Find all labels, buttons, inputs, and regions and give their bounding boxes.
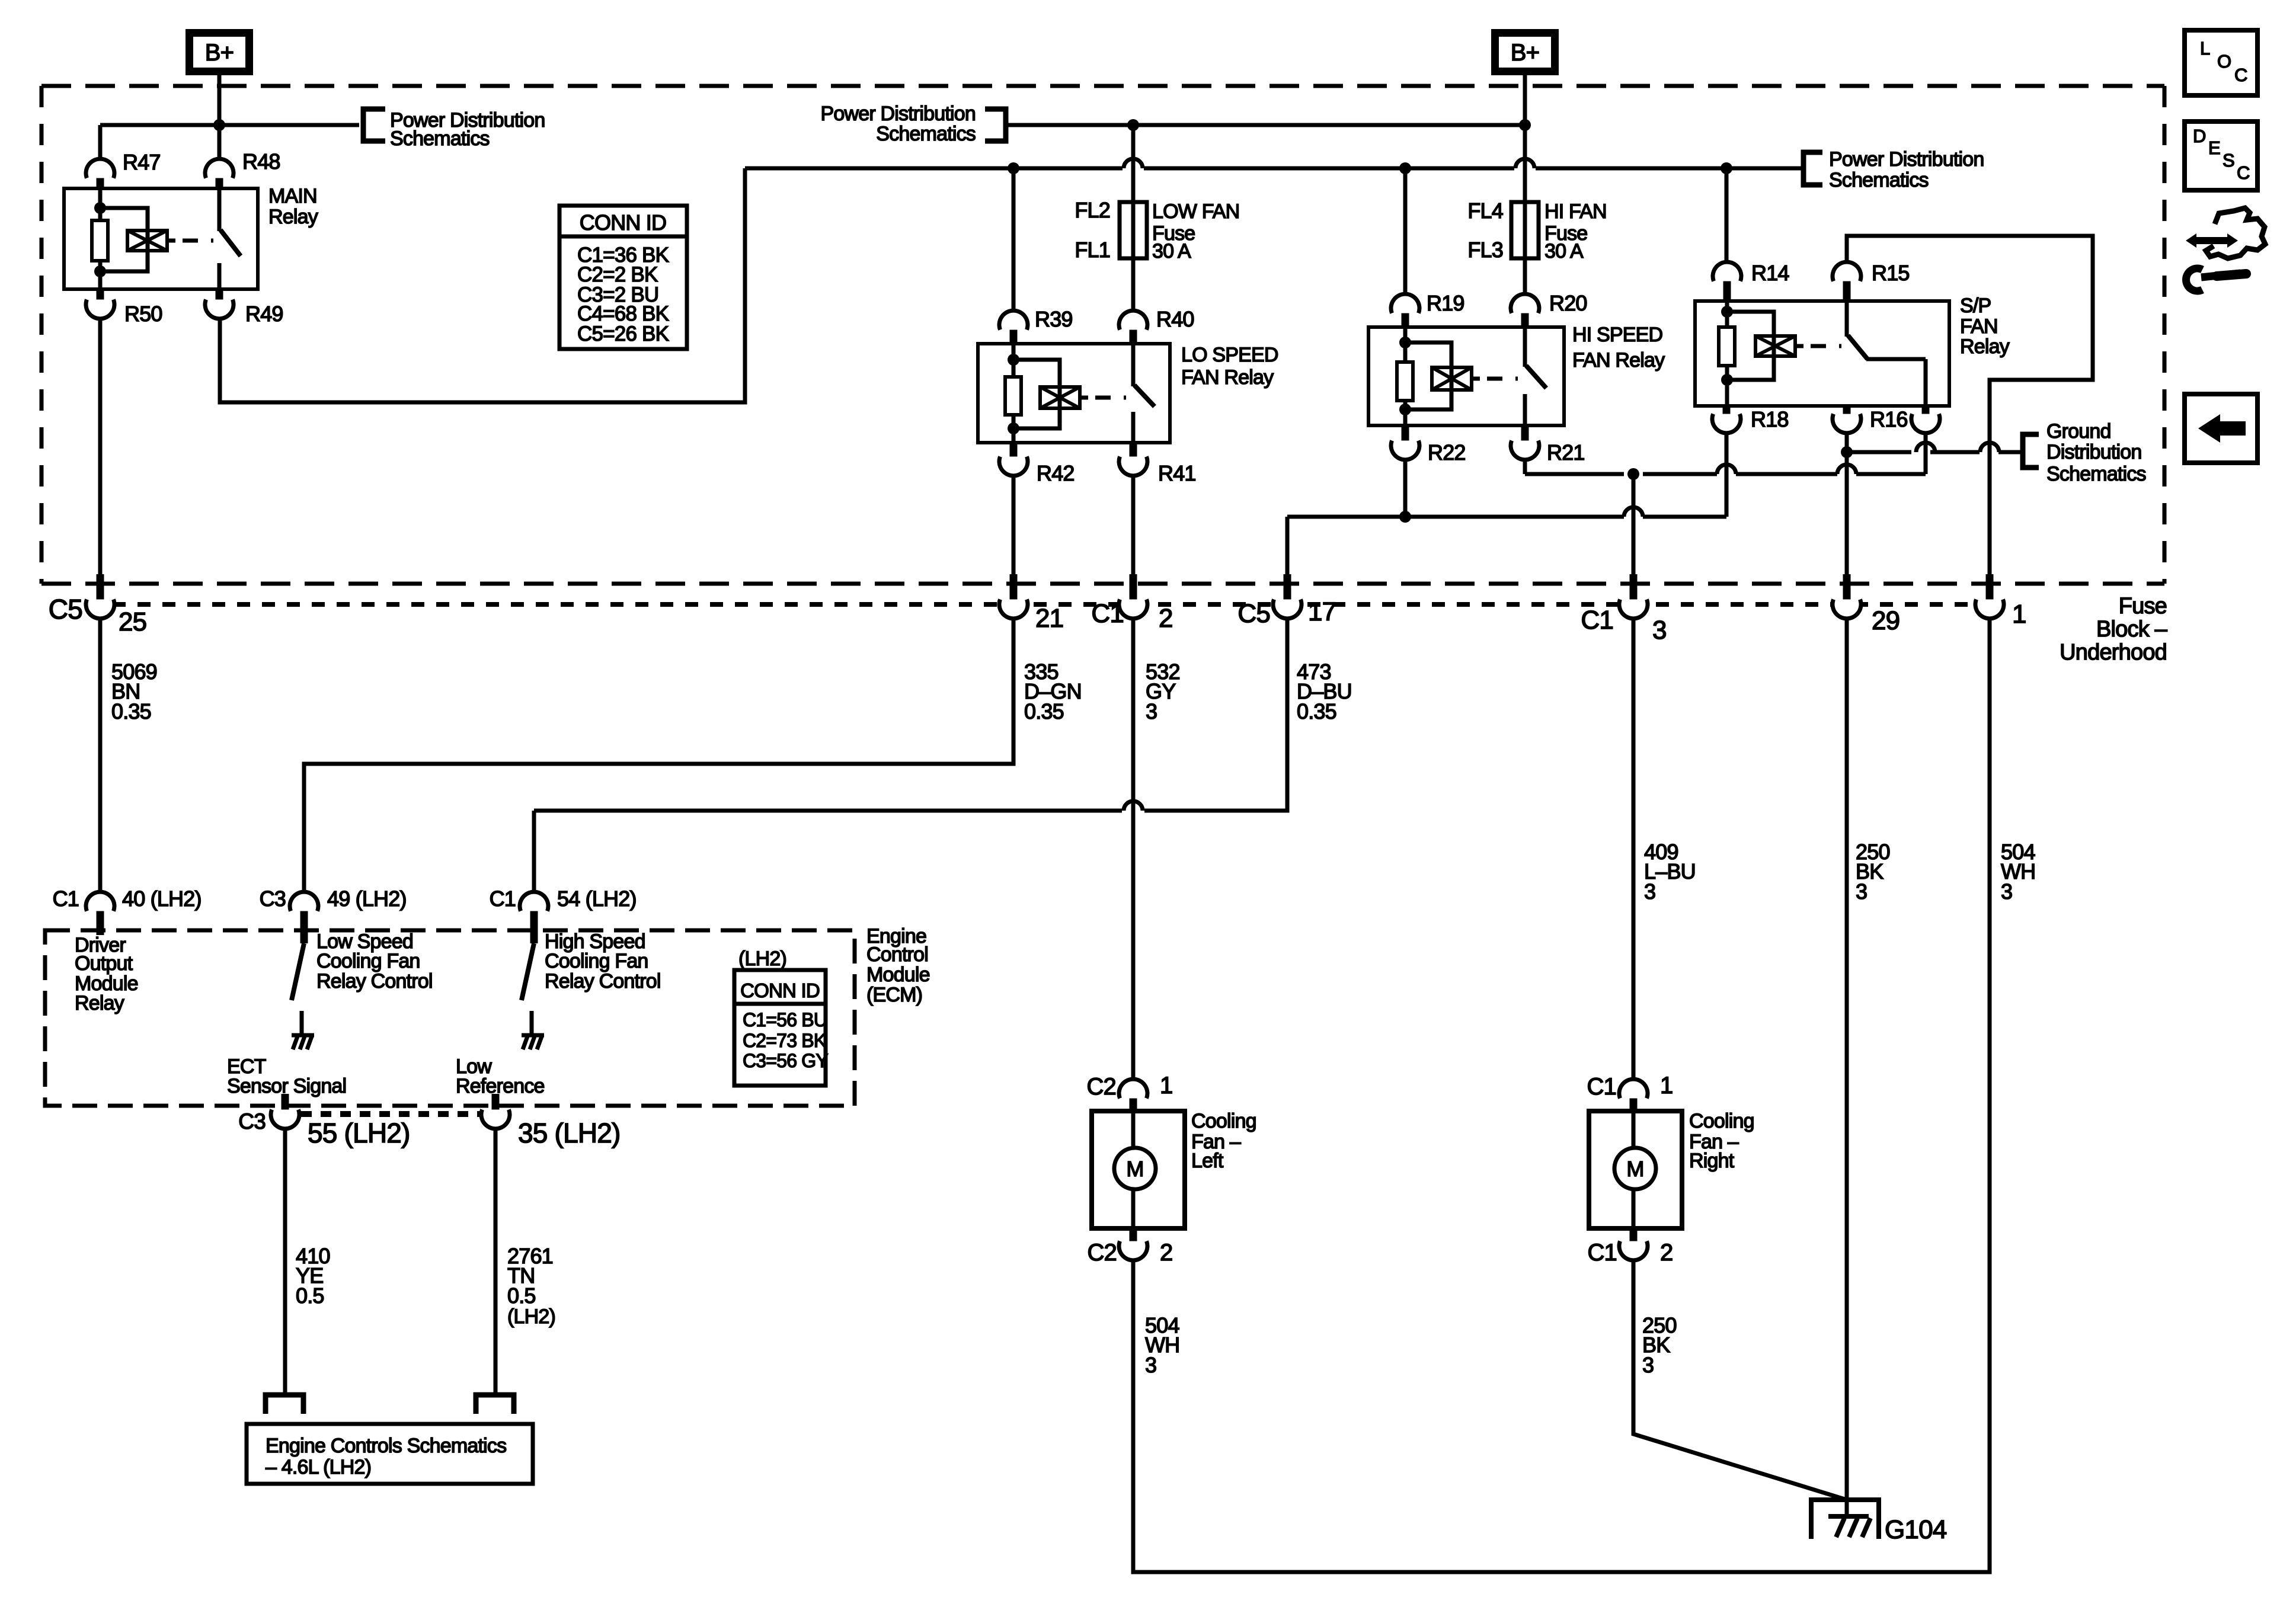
relay LO SPEED switch bbox=[1133, 344, 1155, 443]
svg-text:C3: C3 bbox=[238, 1109, 266, 1134]
label Fuse Block - Underhood bbox=[2060, 594, 2168, 665]
label R21 bbox=[1547, 440, 1585, 465]
label 35 (LH2) bbox=[518, 1118, 621, 1148]
node junction dot R22 bbox=[1399, 511, 1411, 523]
relay S/P switch bbox=[1847, 301, 1926, 406]
svg-text:C: C bbox=[2234, 65, 2247, 85]
icon back arrow box bbox=[2185, 394, 2257, 463]
label C2 1 left fan bbox=[1086, 1073, 1172, 1100]
label ECT Sensor Signal bbox=[227, 1055, 346, 1097]
label C3 55 (LH2) bbox=[238, 1109, 410, 1148]
hop bus over LOW FAN fuse wire bbox=[1124, 159, 1143, 168]
pin fuse block 21 stub+arc bbox=[999, 574, 1028, 619]
label FL3 bbox=[1467, 238, 1503, 262]
relay MAIN switch bbox=[219, 188, 241, 289]
ECM lower connector dotted line bbox=[301, 1111, 481, 1117]
label G104 bbox=[1885, 1515, 1947, 1544]
pin right fan C1 2 stub+arc bbox=[1619, 1228, 1648, 1260]
svg-text:S/P: S/P bbox=[1960, 295, 1991, 317]
hop R22 net over pin3 wire bbox=[1624, 507, 1643, 517]
label LOW FAN Fuse 30 A bbox=[1152, 200, 1239, 263]
pin fuse block 2 stub+arc bbox=[1119, 574, 1147, 619]
ground G104 symbol bbox=[1811, 1500, 1879, 1539]
svg-text:Schematics: Schematics bbox=[1829, 169, 1929, 191]
svg-text:R15: R15 bbox=[1872, 261, 1910, 285]
pin R19 stub+arc bbox=[1391, 294, 1419, 327]
pin R42 stub+arc bbox=[999, 443, 1028, 476]
svg-text:C1: C1 bbox=[1581, 606, 1613, 635]
relay MAIN coil branch bbox=[92, 188, 213, 289]
node junction dot R16 bbox=[1841, 446, 1853, 458]
label HI SPEED FAN Relay bbox=[1572, 324, 1665, 372]
label Cooling Fan Right bbox=[1689, 1110, 1754, 1172]
label 409 L-BU 3 bbox=[1644, 840, 1696, 904]
fuse block underhood dashed boundary box bbox=[41, 86, 2164, 584]
label R48 bbox=[242, 149, 280, 174]
svg-text:1: 1 bbox=[1660, 1073, 1673, 1099]
pin R14 stub+arc bbox=[1713, 262, 1741, 301]
off-page bracket Power Distribution Schematics middle bbox=[985, 109, 1006, 141]
label R42 bbox=[1037, 461, 1075, 485]
label R18 bbox=[1751, 407, 1789, 431]
power symbol B+ right terminal box bbox=[1495, 33, 1555, 72]
wire pin3 drop bbox=[1632, 474, 1636, 590]
svg-text:Power Distribution: Power Distribution bbox=[1829, 148, 1984, 171]
ground ECM low speed driver bbox=[292, 1035, 314, 1049]
svg-text:E: E bbox=[2208, 137, 2220, 158]
svg-text:55 (LH2): 55 (LH2) bbox=[308, 1118, 410, 1148]
relay S/P coil branch bbox=[1719, 301, 1841, 406]
svg-text:17: 17 bbox=[1308, 597, 1336, 626]
pin fuse block 3 stub+arc bbox=[1619, 574, 1648, 619]
svg-text:R22: R22 bbox=[1428, 440, 1466, 465]
svg-text:3: 3 bbox=[1642, 1353, 1654, 1377]
power symbol B+ left terminal box bbox=[190, 33, 250, 72]
svg-text:HI SPEED: HI SPEED bbox=[1572, 324, 1662, 346]
label R47 bbox=[123, 150, 161, 174]
label pin C1 2 bbox=[1091, 599, 1172, 633]
svg-text:3: 3 bbox=[1146, 699, 1157, 724]
label FL1 bbox=[1075, 238, 1110, 262]
node junction dot fuse FL2 tap bbox=[1127, 119, 1139, 131]
wire B+ right drop bbox=[1523, 75, 1527, 125]
svg-text:54 (LH2): 54 (LH2) bbox=[557, 886, 637, 911]
label 5069 BN 0.35 bbox=[111, 660, 157, 724]
fuse FL2/FL1 LOW FAN 30A bbox=[1120, 202, 1147, 258]
svg-text:R21: R21 bbox=[1547, 440, 1585, 465]
label R16 bbox=[1870, 407, 1908, 431]
motor Cooling Fan Right bbox=[1589, 1111, 1682, 1228]
svg-text:C1=56 BU: C1=56 BU bbox=[743, 1009, 827, 1030]
svg-text:FAN Relay: FAN Relay bbox=[1572, 349, 1665, 372]
svg-text:Relay: Relay bbox=[1960, 335, 2010, 358]
label C1 54 (LH2) bbox=[490, 886, 637, 911]
label C1 40 (LH2) bbox=[53, 886, 202, 911]
svg-text:G104: G104 bbox=[1885, 1515, 1947, 1544]
svg-text:Fuse: Fuse bbox=[2119, 594, 2167, 619]
svg-text:M: M bbox=[1126, 1157, 1143, 1181]
wire drop to R48 bbox=[218, 125, 222, 159]
svg-text:Cooling Fan: Cooling Fan bbox=[316, 950, 420, 972]
relay LO SPEED box bbox=[978, 344, 1170, 443]
svg-text:C5: C5 bbox=[1237, 599, 1270, 628]
pin right fan C1 1 stub+arc bbox=[1619, 1079, 1648, 1109]
svg-text:2: 2 bbox=[1660, 1240, 1673, 1266]
label C3 49 (LH2) bbox=[260, 886, 407, 911]
svg-text:C2=73 BK: C2=73 BK bbox=[743, 1030, 826, 1051]
wire R42 to pin 21 bbox=[1012, 477, 1016, 590]
svg-text:R41: R41 bbox=[1158, 461, 1196, 485]
wire 250 BK pin29 to ground bbox=[1845, 619, 1849, 1500]
motor Cooling Fan Left bbox=[1092, 1111, 1185, 1228]
svg-text:3: 3 bbox=[1856, 879, 1867, 904]
svg-text:R39: R39 bbox=[1035, 307, 1073, 331]
svg-text:B+: B+ bbox=[205, 40, 234, 66]
pin ECM C1 54 stub+arc bbox=[520, 892, 548, 943]
wire 410 YE to engine controls bbox=[283, 1128, 287, 1395]
pin R15 stub+arc bbox=[1833, 262, 1861, 301]
wire B+ left drop to junction bbox=[218, 75, 222, 125]
svg-text:Output: Output bbox=[75, 952, 133, 975]
svg-text:(ECM): (ECM) bbox=[866, 984, 922, 1006]
pin ECM C3 49 stub+arc bbox=[290, 892, 318, 943]
wire drop to R47 bbox=[98, 125, 103, 159]
label C1 2 right fan bbox=[1587, 1240, 1673, 1266]
pin R49 stub+arc bbox=[205, 289, 234, 319]
svg-text:D: D bbox=[2193, 126, 2206, 146]
wire R16 to ground bracket net bbox=[1847, 433, 2023, 452]
label FL4 bbox=[1467, 199, 1503, 223]
label Power Distribution Schematics right bbox=[1829, 148, 1984, 191]
svg-text:C3=56 GY: C3=56 GY bbox=[743, 1050, 828, 1071]
label Driver Output Module Relay bbox=[75, 934, 138, 1014]
wire LOW FAN fuse to R40 bbox=[1131, 258, 1136, 311]
svg-text:M: M bbox=[1626, 1157, 1643, 1181]
relay LO SPEED coil branch bbox=[1005, 344, 1126, 443]
hop bus over B+ right wire bbox=[1515, 159, 1534, 168]
label 410 YE 0.5 bbox=[296, 1244, 330, 1308]
svg-text:Underhood: Underhood bbox=[2060, 640, 2167, 665]
svg-text:Relay Control: Relay Control bbox=[545, 970, 661, 993]
label 504 WH 3 upper bbox=[2001, 840, 2035, 904]
icon LOC box bbox=[2185, 30, 2257, 95]
off-page bracket Ground Distribution Schematics bbox=[2023, 434, 2039, 468]
label R41 bbox=[1158, 461, 1196, 485]
svg-text:3: 3 bbox=[1652, 616, 1667, 645]
svg-text:Ground: Ground bbox=[2046, 420, 2111, 443]
wire R50 to pin 25 bbox=[98, 320, 103, 590]
label Low Reference bbox=[456, 1055, 545, 1097]
label 2761 TN 0.5 (LH2) bbox=[507, 1244, 555, 1328]
svg-text:30 A: 30 A bbox=[1544, 240, 1584, 263]
label 250 BK 3 lower bbox=[1642, 1313, 1677, 1377]
label pin C5 17 bbox=[1237, 597, 1336, 628]
icon DESC box bbox=[2185, 121, 2257, 190]
svg-text:C3: C3 bbox=[260, 886, 286, 911]
label 504 WH 3 lower bbox=[1145, 1313, 1179, 1377]
svg-text:C1: C1 bbox=[1587, 1240, 1617, 1266]
pin S/P switch output stub+arc bbox=[1911, 406, 1940, 433]
wire 504 WH pin1 to left fan return bbox=[1133, 619, 1990, 1572]
label R14 bbox=[1751, 261, 1789, 285]
svg-text:(LH2): (LH2) bbox=[507, 1305, 555, 1328]
wire R21 to S/P output pin net bbox=[1525, 433, 1926, 474]
hop 473 wire over 532 wire bbox=[1124, 801, 1143, 811]
svg-text:O: O bbox=[2217, 51, 2231, 72]
svg-text:Schematics: Schematics bbox=[876, 123, 976, 145]
label Engine Control Module (ECM) bbox=[866, 925, 930, 1006]
svg-text:3: 3 bbox=[1145, 1353, 1156, 1377]
label Ground Distribution Schematics bbox=[2046, 420, 2146, 485]
pin fuse block 17 stub+arc bbox=[1273, 574, 1302, 619]
label pin C1 3 bbox=[1581, 606, 1666, 645]
label R19 bbox=[1427, 291, 1464, 315]
ground ECM high speed driver bbox=[522, 1035, 544, 1049]
svg-text:R19: R19 bbox=[1427, 291, 1464, 315]
svg-text:0.35: 0.35 bbox=[111, 699, 151, 724]
pin ECM C1 40 stub+arc bbox=[86, 892, 114, 935]
node bus junction R14 bbox=[1721, 162, 1732, 174]
label 250 BK 3 upper bbox=[1856, 840, 1890, 904]
label R22 bbox=[1428, 440, 1466, 465]
svg-text:C5=26 BK: C5=26 BK bbox=[577, 322, 669, 345]
wire main power bus bbox=[745, 167, 1803, 171]
label Power Distribution Schematics left bbox=[390, 109, 545, 150]
pin R40 stub+arc bbox=[1119, 311, 1147, 344]
wire 409 L-BU pin3 to right fan bbox=[1632, 619, 1636, 1080]
wire LOW FAN fuse drop from tap bbox=[1131, 125, 1136, 202]
pin R48 stub+arc bbox=[205, 159, 234, 188]
label LO SPEED FAN Relay bbox=[1181, 344, 1278, 389]
svg-text:C1: C1 bbox=[53, 886, 79, 911]
pin ECM 35 stub+arc bbox=[481, 1094, 510, 1129]
svg-text:Power Distribution: Power Distribution bbox=[821, 103, 976, 125]
svg-text:29: 29 bbox=[1872, 606, 1900, 635]
svg-text:R20: R20 bbox=[1549, 291, 1587, 315]
wire 5069 BN pin25 to ECM C1-40 bbox=[98, 619, 103, 892]
svg-text:Relay: Relay bbox=[268, 206, 318, 228]
svg-text:R42: R42 bbox=[1037, 461, 1075, 485]
receptacle left engine controls bbox=[266, 1395, 303, 1414]
label FL2 bbox=[1075, 198, 1110, 222]
label pin 1 bbox=[2012, 600, 2026, 629]
svg-text:LOW FAN: LOW FAN bbox=[1152, 200, 1239, 223]
svg-text:S: S bbox=[2223, 150, 2234, 171]
svg-text:C1: C1 bbox=[1091, 599, 1124, 628]
svg-text:HI FAN: HI FAN bbox=[1544, 200, 1607, 223]
svg-text:3: 3 bbox=[2001, 879, 2012, 904]
wire 532 GY pin2 to left fan bbox=[1131, 619, 1136, 1080]
svg-text:1: 1 bbox=[1160, 1073, 1172, 1099]
svg-text:C: C bbox=[2237, 162, 2250, 183]
svg-text:40 (LH2): 40 (LH2) bbox=[122, 886, 202, 911]
pin R41 stub+arc bbox=[1119, 443, 1147, 476]
svg-text:C5: C5 bbox=[49, 594, 82, 625]
wire middle feed line bracket to B+ right bbox=[1006, 123, 1525, 127]
svg-text:Block –: Block – bbox=[2096, 617, 2168, 642]
svg-text:R40: R40 bbox=[1156, 307, 1194, 331]
wire HI FAN fuse to R20 bbox=[1523, 258, 1527, 295]
wire 335 D-GN pin21 to ECM C3-49 bbox=[304, 619, 1013, 892]
hop ground net over S/P output wire bbox=[1916, 443, 1935, 452]
svg-text:Distribution: Distribution bbox=[2046, 441, 2141, 463]
svg-text:21: 21 bbox=[1035, 604, 1063, 633]
svg-text:0.5: 0.5 bbox=[296, 1283, 324, 1308]
svg-text:Relay: Relay bbox=[75, 992, 124, 1014]
svg-text:0.35: 0.35 bbox=[1297, 699, 1336, 724]
label 335 D-GN 0.35 bbox=[1024, 660, 1082, 724]
svg-text:R49: R49 bbox=[245, 302, 283, 326]
svg-text:R14: R14 bbox=[1751, 261, 1789, 285]
label R50 bbox=[124, 302, 162, 326]
svg-text:0.5: 0.5 bbox=[507, 1283, 536, 1308]
wire bus drop to R19 bbox=[1403, 168, 1408, 295]
hop R21 net over R18 wire bbox=[1717, 465, 1736, 474]
wire bus drop to R39 bbox=[1012, 168, 1016, 311]
svg-text:MAIN: MAIN bbox=[268, 185, 317, 207]
pin fuse block 1 stub+arc bbox=[1975, 574, 2004, 619]
svg-text:25: 25 bbox=[119, 607, 146, 636]
wire B+ right down to HI FAN fuse bbox=[1523, 125, 1527, 202]
svg-text:FL4: FL4 bbox=[1467, 199, 1503, 223]
svg-text:(LH2): (LH2) bbox=[738, 948, 786, 970]
label R49 bbox=[245, 302, 283, 326]
label R15 bbox=[1872, 261, 1910, 285]
label pin 21 bbox=[1035, 604, 1063, 633]
svg-text:R48: R48 bbox=[242, 149, 280, 174]
svg-text:Schematics: Schematics bbox=[390, 127, 490, 150]
svg-text:Left: Left bbox=[1191, 1150, 1224, 1172]
label MAIN Relay bbox=[268, 185, 318, 228]
svg-text:CONN ID: CONN ID bbox=[740, 980, 820, 1001]
svg-text:3: 3 bbox=[1644, 879, 1655, 904]
off-page bracket Power Distribution Schematics left bbox=[363, 109, 385, 141]
svg-text:1: 1 bbox=[2012, 600, 2026, 629]
pin R22 stub+arc bbox=[1391, 425, 1419, 460]
node junction dot pin3 tap bbox=[1627, 468, 1639, 480]
pin R39 stub+arc bbox=[999, 311, 1028, 344]
fuse FL4/FL3 HI FAN 30A bbox=[1511, 202, 1539, 258]
relay HI SPEED switch bbox=[1525, 327, 1546, 425]
wire bus drop to R14 bbox=[1725, 168, 1729, 263]
switch ECM low speed driver bbox=[292, 943, 304, 1033]
label Low Speed Cooling Fan Relay Control bbox=[316, 930, 433, 993]
relay HI SPEED coil branch bbox=[1397, 327, 1518, 425]
box Engine Controls Schematics bbox=[247, 1424, 533, 1484]
svg-text:FL3: FL3 bbox=[1467, 238, 1503, 262]
svg-text:35 (LH2): 35 (LH2) bbox=[518, 1118, 621, 1148]
label Cooling Fan Left bbox=[1191, 1110, 1256, 1172]
label (LH2) conn id 2 bbox=[738, 948, 786, 970]
svg-text:Relay Control: Relay Control bbox=[316, 970, 433, 993]
label R39 bbox=[1035, 307, 1073, 331]
svg-text:30 A: 30 A bbox=[1152, 240, 1191, 263]
relay MAIN box bbox=[64, 188, 258, 289]
svg-text:C1: C1 bbox=[1587, 1074, 1616, 1100]
pin R16 stub+arc bbox=[1833, 406, 1861, 433]
svg-text:– 4.6L (LH2): – 4.6L (LH2) bbox=[266, 1456, 371, 1478]
svg-text:B+: B+ bbox=[1511, 40, 1539, 66]
fuse block lower connector dotted line bbox=[113, 602, 1974, 607]
svg-text:LO SPEED: LO SPEED bbox=[1181, 344, 1278, 366]
label HI FAN Fuse 30 A bbox=[1544, 200, 1607, 263]
table CONN ID 2 bbox=[734, 970, 828, 1086]
wire horizontal B+ left feed line bbox=[100, 123, 359, 127]
wire R49 riser to bus bbox=[220, 168, 745, 402]
svg-text:Cooling Fan: Cooling Fan bbox=[545, 950, 648, 972]
pin R21 stub+arc bbox=[1511, 425, 1539, 460]
label pin 29 bbox=[1872, 606, 1900, 635]
pin R18 stub+arc bbox=[1712, 406, 1741, 433]
label C2 2 left fan bbox=[1087, 1240, 1172, 1266]
table CONN ID 1 bbox=[559, 206, 687, 349]
pin R20 stub+arc bbox=[1511, 294, 1539, 327]
svg-text:Cooling: Cooling bbox=[1191, 1110, 1256, 1132]
svg-text:49 (LH2): 49 (LH2) bbox=[327, 886, 407, 911]
icon vehicle with arrow and wrench bbox=[2186, 208, 2265, 291]
node bus junction R19 bbox=[1399, 162, 1411, 174]
svg-text:C1: C1 bbox=[490, 886, 516, 911]
svg-text:Schematics: Schematics bbox=[2046, 463, 2146, 485]
wire 2761 TN to engine controls bbox=[494, 1128, 498, 1395]
node junction dot at B+ right bbox=[1519, 119, 1531, 131]
wire 473 D-BU pin17 to ECM C1-54 bbox=[534, 619, 1287, 892]
pin fuse block 25 stub+arc bbox=[86, 574, 114, 619]
svg-text:0.35: 0.35 bbox=[1024, 699, 1064, 724]
svg-text:2: 2 bbox=[1160, 1240, 1172, 1266]
svg-text:R47: R47 bbox=[123, 150, 161, 174]
pin R47 stub+arc bbox=[86, 159, 114, 188]
label Power Distribution Schematics middle bbox=[821, 103, 976, 145]
label pin C5 25 bbox=[49, 594, 147, 636]
label R20 bbox=[1549, 291, 1587, 315]
svg-text:FAN Relay: FAN Relay bbox=[1181, 366, 1274, 389]
hop ground net over pin1 wire bbox=[1980, 443, 1999, 452]
label C1 1 right fan bbox=[1587, 1073, 1673, 1100]
off-page bracket Power Distribution Schematics right bbox=[1803, 152, 1822, 185]
pin fuse block 29 stub+arc bbox=[1833, 574, 1861, 619]
svg-text:Cooling: Cooling bbox=[1689, 1110, 1754, 1132]
wire right fan to ground bbox=[1633, 1260, 1847, 1500]
node junction dot at B+ left bbox=[213, 119, 225, 131]
label S/P FAN Relay bbox=[1960, 295, 2010, 358]
wire R22-R18 common net bbox=[1287, 433, 1726, 590]
switch ECM high speed driver bbox=[522, 943, 534, 1033]
label High Speed Cooling Fan Relay Control bbox=[545, 930, 661, 993]
node bus junction R39 bbox=[1008, 162, 1019, 174]
wire R16 to pin 29 bbox=[1845, 452, 1849, 590]
relay S/P box bbox=[1695, 301, 1949, 406]
hop R21 net over R16 wire bbox=[1837, 465, 1856, 474]
svg-text:FL2: FL2 bbox=[1075, 198, 1110, 222]
label 532 GY 3 bbox=[1146, 660, 1180, 724]
pin left fan C2 1 stub+arc bbox=[1119, 1079, 1147, 1109]
svg-text:Reference: Reference bbox=[456, 1075, 545, 1097]
svg-text:R16: R16 bbox=[1870, 407, 1908, 431]
svg-text:R18: R18 bbox=[1751, 407, 1789, 431]
ECM dashed boundary box bbox=[45, 930, 855, 1106]
pin left fan C2 2 stub+arc bbox=[1119, 1228, 1147, 1260]
wire R41 to pin 2 bbox=[1131, 477, 1136, 590]
wire R15 feedback loop to pin 1 drop bbox=[1847, 236, 2093, 590]
svg-text:Module: Module bbox=[866, 964, 930, 986]
svg-text:L: L bbox=[2200, 38, 2210, 59]
pin ECM C3 55 stub+arc bbox=[271, 1094, 299, 1129]
svg-text:FAN: FAN bbox=[1960, 315, 1998, 338]
svg-text:R50: R50 bbox=[124, 302, 162, 326]
svg-text:2: 2 bbox=[1159, 604, 1173, 633]
label R40 bbox=[1156, 307, 1194, 331]
